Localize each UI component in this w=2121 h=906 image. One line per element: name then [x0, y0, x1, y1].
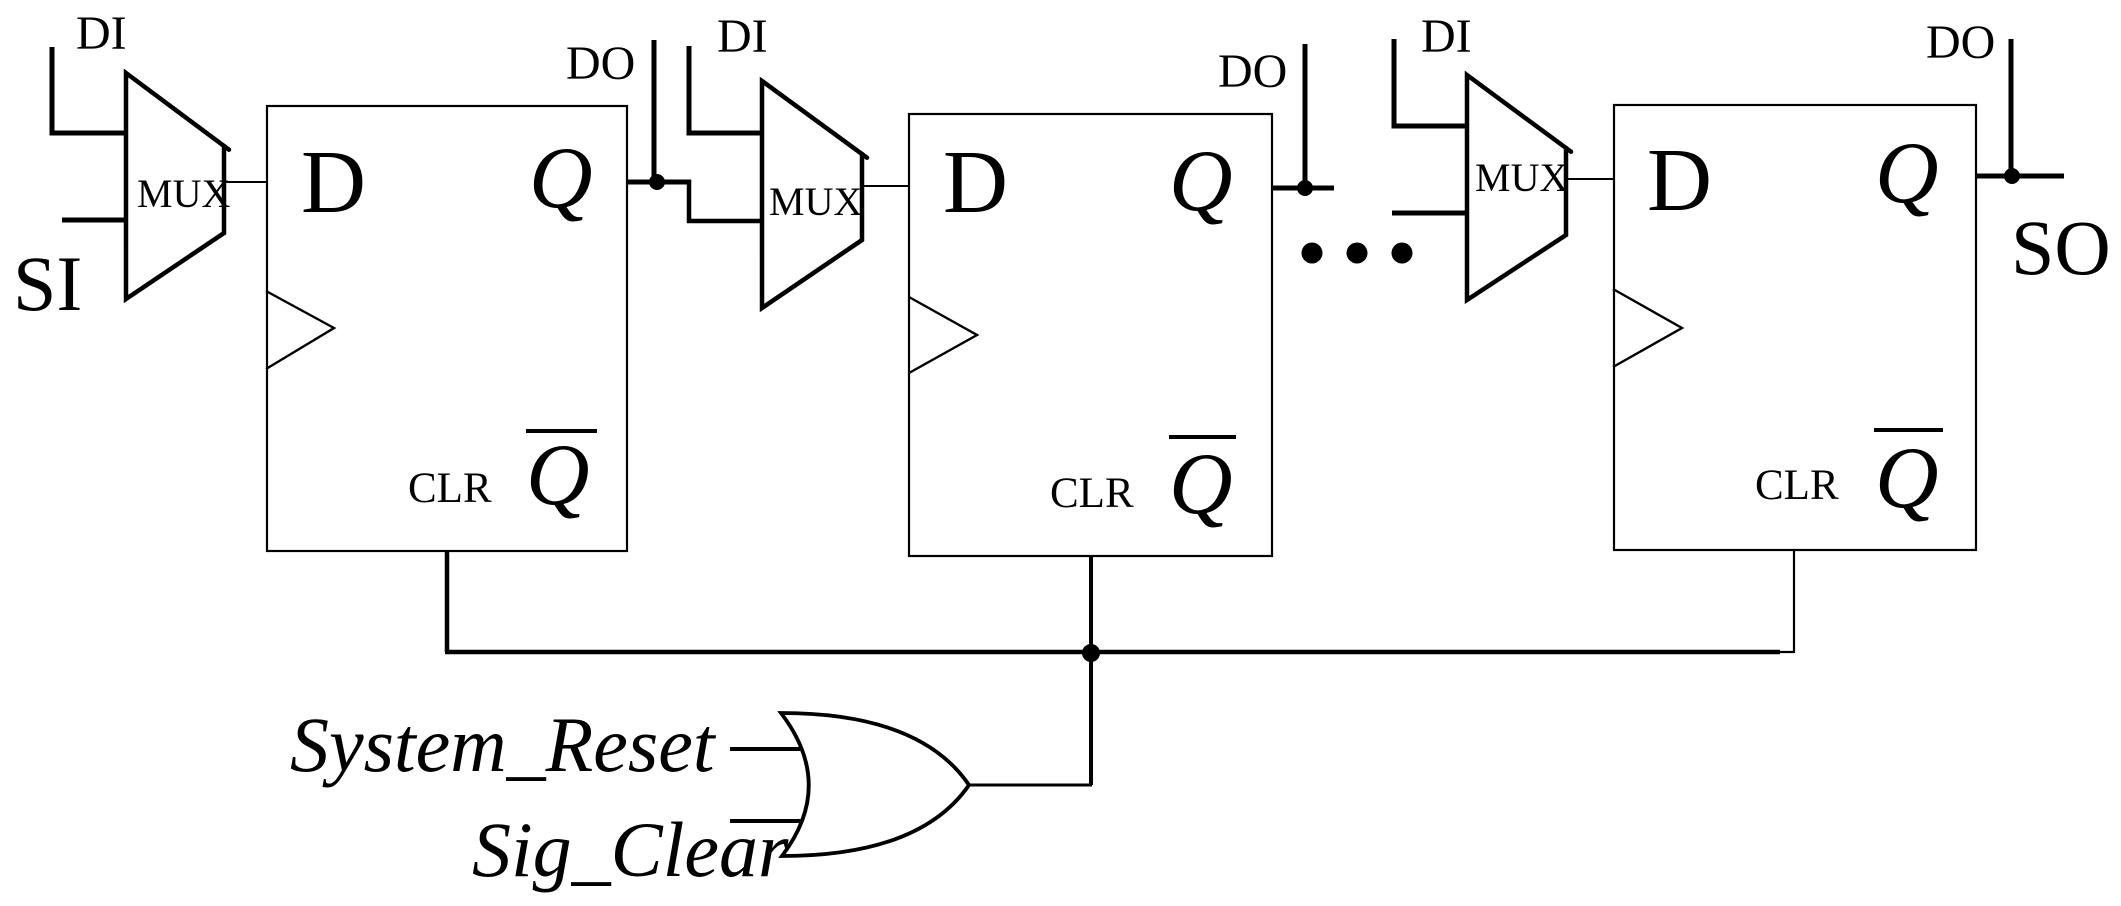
mux MUX2	[762, 81, 862, 308]
junction dot CLR bus	[1082, 644, 1100, 662]
svg-text:SO: SO	[2011, 204, 2111, 291]
mux MUX2 top-corner nub	[862, 154, 867, 158]
wire bus to CLR3 thin jog	[1779, 550, 1794, 652]
svg-text:Q: Q	[1875, 430, 1939, 527]
svg-text:MUX: MUX	[1475, 155, 1568, 200]
wire DI3 input	[1394, 39, 1467, 126]
wire MUX2 output to D2	[862, 185, 910, 187]
svg-text:Q: Q	[1875, 125, 1939, 222]
wire DI2 input	[689, 46, 762, 133]
svg-text:Q: Q	[1169, 133, 1233, 230]
flip-flop FF3	[1614, 105, 1976, 550]
wire DO3	[2009, 39, 2014, 176]
flip-flop FF2	[909, 114, 1272, 556]
wire DI1 input	[52, 47, 126, 133]
wire MUX1 output to D1	[224, 181, 267, 183]
wire Q3 output (SO)	[1976, 174, 2064, 179]
wire Sig_Clear input	[730, 819, 801, 823]
svg-text:DI: DI	[717, 10, 768, 63]
svg-text:DI: DI	[1421, 10, 1472, 63]
svg-text:SI: SI	[13, 240, 82, 327]
wire MUX3 output to D3	[1566, 178, 1614, 180]
wire OR gate output	[969, 784, 1092, 787]
wire SI input	[62, 218, 126, 223]
mux MUX3 top-corner nub	[1566, 148, 1571, 152]
wire System_Reset input	[730, 747, 803, 751]
wire Q1 to MUX2 lower input	[689, 180, 762, 221]
svg-text:D: D	[943, 133, 1008, 232]
svg-text:DI: DI	[76, 7, 127, 60]
junction dot Q3/DO3	[2004, 168, 2020, 184]
wire Q1 output	[628, 180, 691, 185]
svg-text:CLR: CLR	[1755, 462, 1839, 509]
svg-text:CLR: CLR	[1050, 470, 1134, 517]
overbar (FF1 Q-bar)	[526, 429, 597, 433]
svg-text:CLR: CLR	[408, 465, 492, 512]
svg-text:DO: DO	[1926, 16, 1995, 69]
wire DO1	[652, 40, 657, 182]
svg-text:Q: Q	[526, 427, 590, 524]
or-gate U1 body	[781, 713, 969, 856]
mux MUX3	[1467, 75, 1566, 300]
svg-text:DO: DO	[566, 37, 635, 90]
wire CLR bus	[445, 650, 1780, 655]
mux MUX1	[126, 73, 224, 299]
svg-text:MUX: MUX	[769, 179, 862, 224]
clock triangle (FF2)	[909, 297, 977, 373]
svg-text:Q: Q	[529, 130, 593, 227]
junction dot Q1/DO1	[649, 174, 665, 190]
svg-text:System_Reset: System_Reset	[290, 701, 717, 788]
flip-flop FF1	[267, 106, 627, 551]
wire DO2	[1303, 44, 1308, 188]
mux MUX1 top-corner nub	[224, 146, 229, 150]
ellipsis dots	[1302, 243, 1323, 264]
svg-text:D: D	[301, 133, 366, 232]
wire CLR1 drop	[445, 551, 450, 652]
clock triangle (FF1)	[266, 291, 334, 369]
overbar (FF3 Q-bar)	[1874, 428, 1943, 432]
wire Q2 output	[1272, 186, 1334, 191]
svg-text:D: D	[1647, 131, 1712, 230]
overbar (FF2 Q-bar)	[1169, 435, 1236, 439]
junction dot Q2/DO2	[1297, 180, 1313, 196]
svg-text:Q: Q	[1169, 436, 1233, 533]
wire CLR2 drop	[1089, 556, 1093, 785]
svg-text:MUX: MUX	[137, 171, 230, 216]
svg-text:DO: DO	[1218, 45, 1287, 98]
wire MUX3 lower input	[1392, 211, 1467, 216]
clock triangle (FF3)	[1613, 289, 1682, 367]
